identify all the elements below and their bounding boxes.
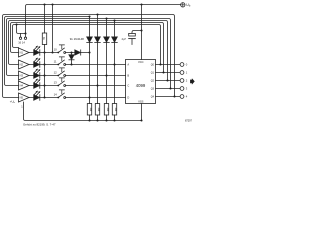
node junction rail row5	[43, 96, 45, 98]
arrow output marker	[190, 78, 195, 84]
svg-text:N2: N2	[20, 63, 24, 67]
node junction col3 row	[105, 74, 107, 76]
node junction rail row3	[43, 74, 45, 76]
wire resistor bottoms	[90, 115, 115, 121]
wire output row Q0	[156, 64, 181, 66]
svg-text:1: 1	[21, 105, 23, 108]
terminal Ub supply	[181, 3, 185, 7]
svg-text:10: 10	[54, 48, 58, 52]
node junction col2 bus	[96, 13, 98, 15]
node junction R1 supply tap	[43, 3, 45, 5]
svg-text:4µ7: 4µ7	[122, 37, 127, 41]
wire row1	[29, 52, 90, 54]
wire supply top line	[26, 5, 181, 34]
svg-text:C: C	[127, 83, 129, 87]
svg-text:N1: N1	[20, 51, 24, 55]
svg-text:14: 14	[54, 93, 58, 97]
svg-text:+Ub: +Ub	[10, 100, 16, 104]
node junction row1 col1	[88, 51, 90, 53]
switch S3	[57, 68, 65, 77]
svg-text:13: 13	[54, 81, 58, 85]
node junction Q2 feedback	[166, 79, 168, 81]
wire matrix column 4	[114, 21, 116, 104]
connector pin stub left	[20, 34, 22, 38]
node junction col4 row	[113, 63, 115, 65]
svg-text:Ub: Ub	[186, 3, 191, 8]
op-amp N4	[19, 81, 30, 90]
wire VCC drop to IC	[141, 5, 143, 60]
node junction Q3 feedback	[169, 87, 171, 89]
node junction col3 bus	[105, 17, 107, 19]
svg-text:3: 3	[186, 87, 188, 91]
wire output row Q4	[156, 96, 181, 98]
node junction Q4 feedback	[173, 95, 175, 97]
resistor R2	[87, 104, 91, 116]
node junction rail VSS	[140, 119, 142, 121]
terminal output 2	[180, 79, 184, 83]
switch S4	[57, 78, 65, 87]
svg-text:4099: 4099	[136, 83, 146, 88]
terminal output 0	[180, 63, 184, 67]
svg-text:4: 4	[186, 95, 188, 99]
node junction col2 row	[96, 84, 98, 86]
wire row2	[29, 64, 126, 66]
node junction connector supply	[24, 32, 26, 34]
LED D1	[34, 46, 41, 56]
resistor R5	[112, 104, 116, 116]
svg-text:87297: 87297	[185, 119, 193, 122]
switch S2	[57, 57, 65, 66]
diode D6 row1-row2	[71, 53, 73, 65]
wire feedback line L6	[13, 25, 161, 65]
svg-text:N4: N4	[20, 84, 24, 88]
wire feedback line L3	[7, 19, 171, 89]
wire supply drop to row1	[52, 5, 54, 53]
node junction col4 bus	[113, 19, 115, 21]
svg-text:12: 12	[54, 71, 58, 75]
wire matrix column 1	[89, 17, 91, 104]
capacitor C1	[132, 31, 142, 34]
diode D9 col2	[95, 37, 101, 42]
LED D4	[34, 79, 41, 89]
diode D7 row1 series	[75, 50, 81, 55]
op-amp N5	[19, 93, 30, 102]
wire feedback line L2	[5, 17, 90, 86]
terminal output 4	[180, 95, 184, 99]
wire matrix column 3	[106, 19, 108, 104]
svg-text:D: D	[127, 95, 129, 99]
svg-text:VSS: VSS	[138, 100, 144, 104]
wire output row Q2	[156, 80, 181, 82]
svg-text:9x 1N4148: 9x 1N4148	[70, 37, 84, 41]
resistor R4	[104, 104, 108, 116]
wire feedback line L1	[3, 15, 175, 98]
node junction rail row4	[43, 84, 45, 86]
node junction connector tap on L6	[15, 23, 17, 25]
wire row4	[29, 85, 126, 87]
svg-text:1: 1	[186, 71, 188, 75]
wire feedback line L5	[11, 23, 164, 73]
wire ground rail	[24, 102, 142, 121]
wire feedback line L4	[9, 21, 168, 81]
svg-text:N5: N5	[20, 96, 24, 100]
wire output row Q1	[156, 72, 181, 74]
node junction col1 row	[88, 96, 90, 98]
resistor R1	[42, 33, 46, 45]
node junction rail R3	[96, 119, 98, 121]
op-amp N3	[19, 71, 30, 80]
svg-text:Q1: Q1	[151, 72, 155, 75]
terminal output 1	[180, 71, 184, 75]
wire connector feed	[17, 25, 26, 34]
wire row5	[29, 97, 126, 99]
wire LED cathode rail	[44, 45, 46, 98]
svg-text:VCC: VCC	[138, 60, 144, 64]
switch S5	[57, 90, 65, 99]
node junction supply drop at row1	[51, 51, 53, 53]
svg-text:Q3: Q3	[151, 88, 155, 91]
node junction switch supply tap	[51, 3, 53, 5]
node junction VCC supply tap	[140, 3, 142, 5]
svg-text:11: 11	[54, 60, 57, 64]
IC U1 4099	[126, 60, 156, 104]
node junction rail R4	[105, 119, 107, 121]
svg-text:Q0: Q0	[151, 64, 155, 67]
LED D3	[34, 69, 41, 79]
svg-text:N3: N3	[20, 74, 24, 78]
node junction capacitor tap	[140, 29, 142, 31]
op-amp N2	[19, 60, 30, 69]
diode D10 col3	[104, 37, 110, 42]
wire VSS down	[141, 104, 143, 121]
op-amp N1	[19, 48, 30, 57]
node junction Q0 feedback	[159, 63, 161, 65]
node junction row2 branch	[70, 63, 72, 65]
node junction rail R2	[88, 119, 90, 121]
wire row3	[29, 75, 126, 77]
resistor R3	[95, 104, 99, 116]
svg-text:2: 2	[186, 79, 188, 83]
node junction row1 branch	[70, 51, 72, 53]
switch S1	[57, 45, 65, 54]
terminal output 3	[180, 87, 184, 91]
node junction Q1 feedback	[162, 71, 164, 73]
svg-text:0: 0	[186, 63, 188, 67]
node junction rail row2	[43, 63, 45, 65]
wire matrix column 2	[97, 15, 99, 104]
svg-text:A: A	[127, 62, 129, 66]
svg-text:Q4: Q4	[151, 96, 155, 99]
svg-text:16 14: 16 14	[18, 40, 25, 44]
wire output row Q3	[156, 88, 181, 90]
svg-text:Gehört zu 82199, S. 7-47: Gehört zu 82199, S. 7-47	[23, 122, 56, 126]
diode D8 col1	[87, 37, 93, 42]
LED D2	[34, 58, 41, 68]
connector pin stub right	[25, 34, 27, 38]
svg-text:Q2: Q2	[151, 80, 155, 83]
node junction rail row1	[43, 51, 45, 53]
svg-text:B: B	[127, 73, 129, 77]
diode D11 col4	[112, 37, 118, 42]
wire R1 top drop	[44, 5, 46, 34]
node junction col1 bus	[88, 15, 90, 17]
LED D5	[34, 91, 41, 101]
node junction rail R5	[113, 119, 115, 121]
